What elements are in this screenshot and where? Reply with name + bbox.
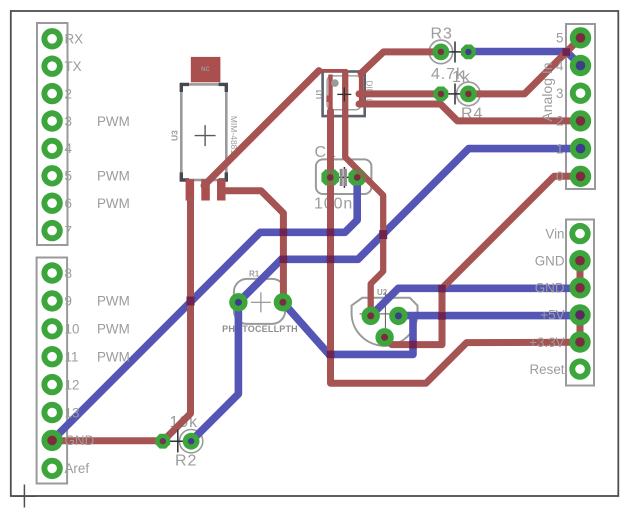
C1 plates [340,169,347,186]
svg-text:3: 3 [556,86,563,101]
svg-text:TX: TX [65,59,82,74]
pad C1.2 [348,169,366,185]
pad R4.1 [434,87,449,102]
wire red U2 bottom pad to analog pad 0 [385,176,581,344]
svg-text:0: 0 [556,169,563,184]
pad U2.1 [362,307,380,325]
svg-text:Analog In: Analog In [539,62,555,121]
pad J1-7 [41,220,62,241]
svg-text:PWM: PWM [97,322,130,337]
wire blue analog pad 1 to R1.1 [238,149,580,303]
pad J3-A0 [570,166,591,187]
pad J3-A1 [570,138,591,159]
wire red U3 pin1 to R2.1 [163,199,191,441]
svg-text:PWM: PWM [97,169,130,184]
pad J2-10 [41,318,62,339]
svg-text:3: 3 [65,114,72,129]
resistor R3 outline ring and labels [429,26,465,84]
svg-text:PWM: PWM [97,350,130,365]
svg-text:13: 13 [65,405,80,420]
resistor R4 outline ring and labels [452,69,483,123]
svg-text:R2: R2 [175,453,197,470]
pad J2-Aref [41,458,62,479]
resistor / capacitor symbol strokes [163,42,469,453]
IC U3 pin pads [186,179,226,200]
pad U2.2 [389,307,407,325]
pad J1-4 [41,138,62,159]
header J3 analog-in box [566,24,595,189]
pad J2-9 [41,290,62,311]
svg-text:2: 2 [65,86,72,101]
pad J4-5V [569,304,590,325]
IC U3 body outline [170,57,239,180]
wire blue GND pad to C1.2 [52,177,357,440]
wire red U1 down through C1.2 to U2 left pad [345,72,383,316]
wire red U3 pin2 to U1 pin1 [204,71,319,186]
pad J3-A5 [570,27,591,48]
pad J1-5 [41,165,62,186]
R4 symbol [441,93,469,95]
R3 symbol [441,51,469,53]
wire red U1 to analog pad 2 [359,104,581,121]
svg-text:PHOTOCELLPTH: PHOTOCELLPTH [222,324,298,334]
pad J4-Vin [569,223,590,244]
svg-text:7: 7 [65,223,72,238]
svg-text:PWM: PWM [97,294,130,309]
svg-text:4: 4 [556,58,564,73]
svg-text:1: 1 [556,141,563,156]
svg-text:R3: R3 [431,26,453,43]
svg-text:6: 6 [65,196,72,211]
svg-text:5: 5 [556,31,563,46]
pad J2-GND [41,430,62,451]
pad R1.1 [229,293,247,311]
pad R4.2 [460,86,477,103]
svg-text:RX: RX [65,32,84,47]
svg-text:4: 4 [65,141,73,156]
capacitor C1 outline [314,144,371,213]
wire red R4.2 to analog pad 5 [468,38,580,94]
pad J4-3V3 [569,331,590,352]
U1 pin1 dot [331,79,339,87]
pad J2-13 [41,402,62,423]
svg-text:+3.3V: +3.3V [529,335,564,350]
header J2 digital 8-13 box [37,258,68,484]
pad J4-Reset [569,358,590,379]
svg-text:9: 9 [65,294,72,309]
svg-text:12: 12 [65,377,80,392]
wire blue U2 right pad to +5V pad [398,312,580,320]
pad J2-8 [41,262,62,283]
pad J1-6 [41,193,62,214]
wire blue R1.1 down to R2.2 [191,302,238,441]
pad J1-TX [41,55,62,76]
svg-text:GND: GND [535,281,565,296]
svg-text:2: 2 [556,114,563,129]
svg-text:Vin: Vin [545,226,564,241]
pad J3-A3 [570,83,591,104]
pad J3-A2 [570,110,591,131]
C1 symbol [330,176,357,178]
wire red U3 pin3 to R1.2 [221,191,283,303]
svg-text:U3: U3 [170,130,180,141]
header J1 digital 0-7 box [37,23,68,245]
pad J1-3 [41,110,62,131]
wire blue U2 left pad to GND2 pad [371,288,580,316]
pad J4-GND2 [569,277,590,298]
pad R3.2 [461,45,476,60]
pad J1-RX [41,28,62,49]
pad R2.1 [155,434,170,449]
svg-text:Reset: Reset [530,362,565,377]
resistor R2 outline ring and labels [170,414,203,470]
wire red U1 to R4.1 [359,90,441,97]
wire blue R1.2 branch to +5V line [283,302,413,354]
svg-text:Aref: Aref [65,461,90,476]
IC U1 body [315,69,374,116]
svg-text:GND: GND [535,254,565,269]
transistor U2 outline [352,288,418,346]
origin cross [13,485,36,508]
pad J3-A4 [570,55,591,76]
wire red GND pad to R2.1 [51,437,163,444]
svg-text:NC: NC [201,67,210,73]
pad U2.3 [375,328,393,346]
svg-text:10: 10 [65,322,80,337]
svg-text:8: 8 [65,266,72,281]
pad R2.2 [183,433,200,450]
pad R1.2 [274,293,292,311]
pad J4-GND [569,250,590,271]
pad J2-12 [41,374,62,395]
R2 symbol [163,440,191,442]
svg-text:+5V: +5V [540,308,564,323]
wire red overlay across C1.1 pad [327,166,333,189]
photocell R1 outline [222,270,298,335]
svg-text:PWM: PWM [97,196,130,211]
wire red +5V to +3.3V on power header [577,315,584,342]
svg-text:11: 11 [65,350,79,365]
wire blue R3.2 to analog pad 4 [468,52,580,66]
svg-text:R1: R1 [249,270,260,279]
svg-text:1k: 1k [452,69,471,86]
pad J1-2 [41,83,62,104]
U1 origin cross [337,93,351,95]
header J4 power box [566,220,594,386]
svg-text:GND: GND [65,433,95,448]
wire red U1 through C1.1 to +3.3V pad [331,111,581,383]
svg-text:U1: U1 [315,88,324,99]
wire red GND to GND2 on power header [577,261,584,288]
pad J2-11 [41,346,62,367]
svg-text:PWM: PWM [97,114,130,129]
pad R3.1 [433,44,450,61]
wire red U1 to R3.1 [361,52,441,73]
svg-text:5: 5 [65,169,72,184]
wire red overlay across C1.2 pad [350,162,371,183]
pad C1.1 [321,169,339,185]
layer overlap blend patches [187,48,571,358]
